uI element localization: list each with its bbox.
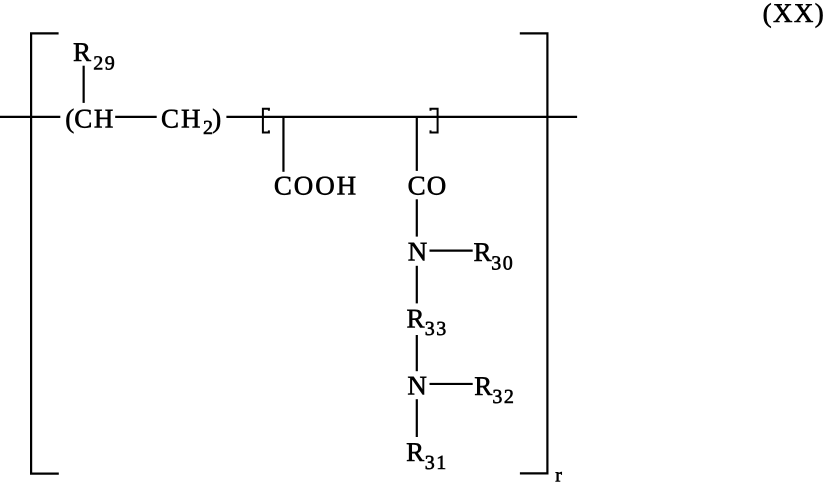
svg-text:29: 29 (93, 52, 116, 74)
svg-text:30: 30 (491, 252, 514, 274)
svg-text:): ) (212, 104, 221, 134)
svg-text:N: N (408, 237, 428, 267)
svg-text:R: R (474, 371, 492, 401)
svg-text:C: C (161, 104, 179, 134)
svg-text:N: N (407, 370, 427, 400)
svg-text:R: R (73, 37, 91, 67)
svg-text:32: 32 (492, 386, 515, 408)
svg-text:r: r (555, 464, 562, 482)
svg-text:33: 33 (425, 318, 448, 340)
svg-text:31: 31 (425, 452, 448, 474)
svg-text:CO: CO (408, 171, 448, 201)
svg-text:(XX): (XX) (763, 0, 825, 28)
svg-text:(: ( (65, 104, 74, 134)
svg-text:H: H (181, 104, 201, 134)
svg-text:R: R (406, 437, 424, 467)
svg-text:R: R (474, 237, 492, 267)
svg-text:H: H (94, 104, 114, 134)
svg-text:C: C (74, 104, 92, 134)
svg-text:2: 2 (203, 117, 213, 139)
svg-text:R: R (407, 304, 425, 334)
svg-text:COOH: COOH (274, 171, 358, 201)
